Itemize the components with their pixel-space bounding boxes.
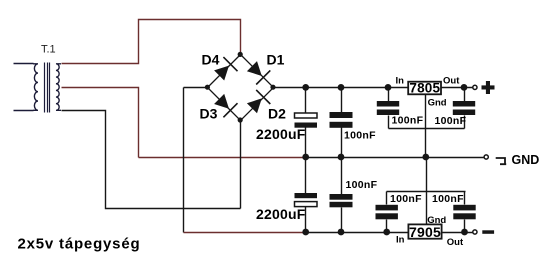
svg-text:GND: GND [512,153,540,167]
junction pos rail C1 [302,84,309,91]
terminal minus open circle [473,230,477,234]
svg-text:100nF: 100nF [346,179,378,191]
transformer T1 primary left lead bottom [14,110,34,112]
terminal GND open circle [484,155,488,159]
wire bridge left node stub [184,87,208,89]
node bridge bottom [238,117,243,122]
svg-text:100nF: 100nF [432,193,464,205]
svg-text:Out: Out [447,237,464,248]
transformer T1 core [44,63,46,113]
diode D3 [214,94,229,109]
wire bridge left node down to neg rail [183,88,185,233]
transformer T1 primary winding [33,64,38,111]
wire GND rail right segment [307,157,485,159]
wire secondary top tap to bridge AC top (red) [62,20,241,64]
junction output cap bottom [461,229,468,236]
wire positive rail [274,87,409,89]
svg-text:7805: 7805 [409,81,440,96]
svg-text:D3: D3 [200,106,218,122]
svg-text:In: In [396,75,405,86]
svg-text:Out: Out [443,75,460,86]
junction pos rail 100nF [338,84,345,91]
wire 7905 output [442,232,473,234]
svg-text:2x5v tápegység: 2x5v tápegység [18,236,141,253]
svg-text:2200uF: 2200uF [256,126,306,142]
svg-text:In: In [396,235,405,246]
wire bridge AC bottom vertical [240,121,242,209]
junction output cap top [461,84,468,91]
diode D1 [247,61,262,76]
junction gnd regulators [422,154,429,161]
chassis ground mark [496,158,507,164]
wire GND rail left segment (red) [139,157,307,159]
node bridge right [270,85,275,90]
node bridge top [238,52,243,57]
capacitor 100nF at 7805 input [388,88,390,102]
capacitor 100nF at 7905 input [386,192,388,205]
wire bottom 100nF caps top connect [387,191,466,193]
transformer T1 secondary winding [56,64,61,111]
svg-text:T.1: T.1 [41,44,56,56]
bridge diamond edges [208,55,274,121]
capacitor 100nF top mid [341,88,343,113]
wire 7905 gnd pin up to gnd rail [426,158,428,225]
wire negative rail to 7905 in [307,232,409,234]
svg-text:100nF: 100nF [390,193,422,205]
junction gnd C1 [302,154,309,161]
diode D4 [214,66,229,81]
junction pos rail 100nF in [385,84,392,91]
capacitor C2 2200uF negative [305,158,307,194]
capacitor C1 2200uF positive [305,88,307,114]
svg-text:100nF: 100nF [392,115,424,127]
wire negative rail left segment (red) [184,232,307,234]
node bridge left [205,85,210,90]
capacitor 100nF at 7905 output [464,192,466,205]
minus output symbol [482,230,494,234]
wire secondary center tap down (red) [62,88,139,158]
regulator U2 7905 [408,224,441,238]
svg-text:2200uF: 2200uF [256,206,306,222]
svg-text:100nF: 100nF [344,130,376,142]
wire top 100nF caps bottom connect [389,128,465,130]
svg-text:D1: D1 [267,51,285,67]
diode D2 [247,98,262,113]
wire 7805 gnd pin down [425,95,427,158]
junction neg 100nF [338,229,345,236]
junction neg C2 [302,229,309,236]
svg-text:100nF: 100nF [435,115,467,127]
wire 7805 output [442,87,473,89]
plus output symbol [482,85,495,89]
svg-text:D2: D2 [268,106,286,122]
wire secondary bottom tap to bridge AC bottom [62,111,241,209]
svg-text:D4: D4 [202,51,220,67]
capacitor 100nF bottom mid [341,158,343,195]
transformer T1 primary left lead top [14,63,34,65]
regulator U1 7805 [408,82,441,95]
junction neg 100nF in [383,229,390,236]
svg-text:7905: 7905 [409,224,441,240]
terminal plus open circle [473,85,477,89]
capacitor 100nF at 7805 output [464,88,466,102]
svg-text:Gnd: Gnd [428,98,447,109]
junction gnd 100nF [338,154,345,161]
